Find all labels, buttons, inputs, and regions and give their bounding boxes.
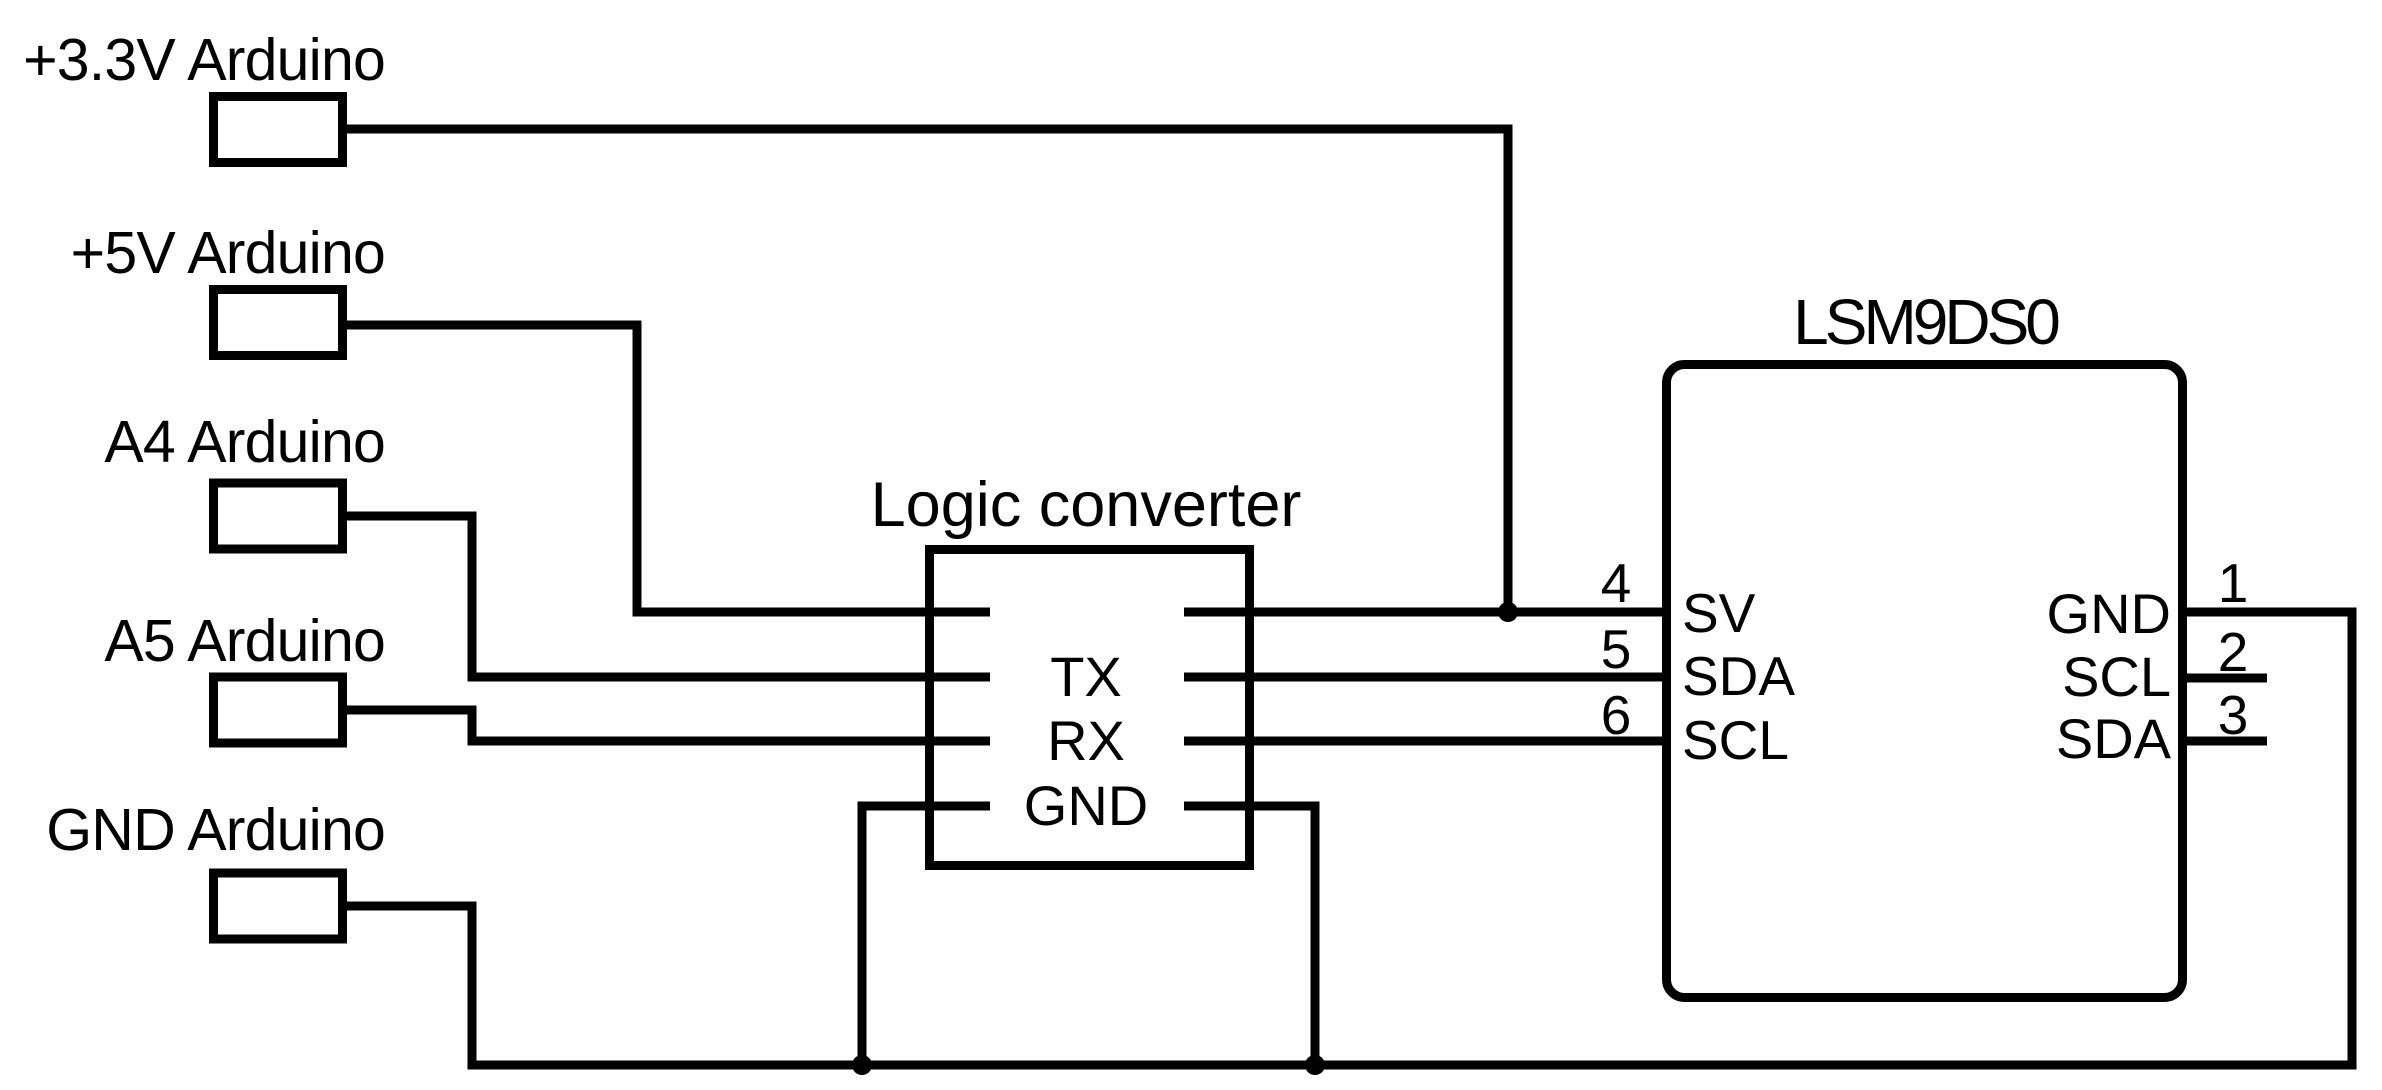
svg-text:SCL: SCL (2062, 645, 2171, 708)
svg-text:+5V Arduino: +5V Arduino (71, 220, 385, 286)
svg-text:A5 Arduino: A5 Arduino (104, 608, 385, 674)
svg-text:6: 6 (1601, 684, 1632, 746)
svg-text:5: 5 (1601, 618, 1632, 680)
svg-text:RX: RX (1047, 709, 1125, 772)
svg-text:GND: GND (1024, 774, 1148, 837)
svg-text:1: 1 (2218, 552, 2249, 614)
svg-text:+3.3V Arduino: +3.3V Arduino (23, 27, 385, 93)
svg-text:SDA: SDA (1682, 645, 1795, 707)
svg-text:2: 2 (2218, 621, 2249, 683)
svg-text:SV: SV (1682, 582, 1756, 644)
svg-text:LSM9DS0: LSM9DS0 (1793, 286, 2059, 358)
svg-text:4: 4 (1601, 552, 1632, 614)
svg-text:SDA: SDA (2056, 707, 2172, 770)
svg-text:TX: TX (1050, 645, 1122, 708)
svg-text:Logic converter: Logic converter (871, 470, 1302, 540)
svg-text:SCL: SCL (1682, 709, 1789, 771)
svg-text:GND: GND (2047, 582, 2171, 645)
svg-text:A4 Arduino: A4 Arduino (104, 409, 385, 475)
svg-text:GND Arduino: GND Arduino (46, 797, 385, 863)
svg-text:3: 3 (2218, 684, 2249, 746)
